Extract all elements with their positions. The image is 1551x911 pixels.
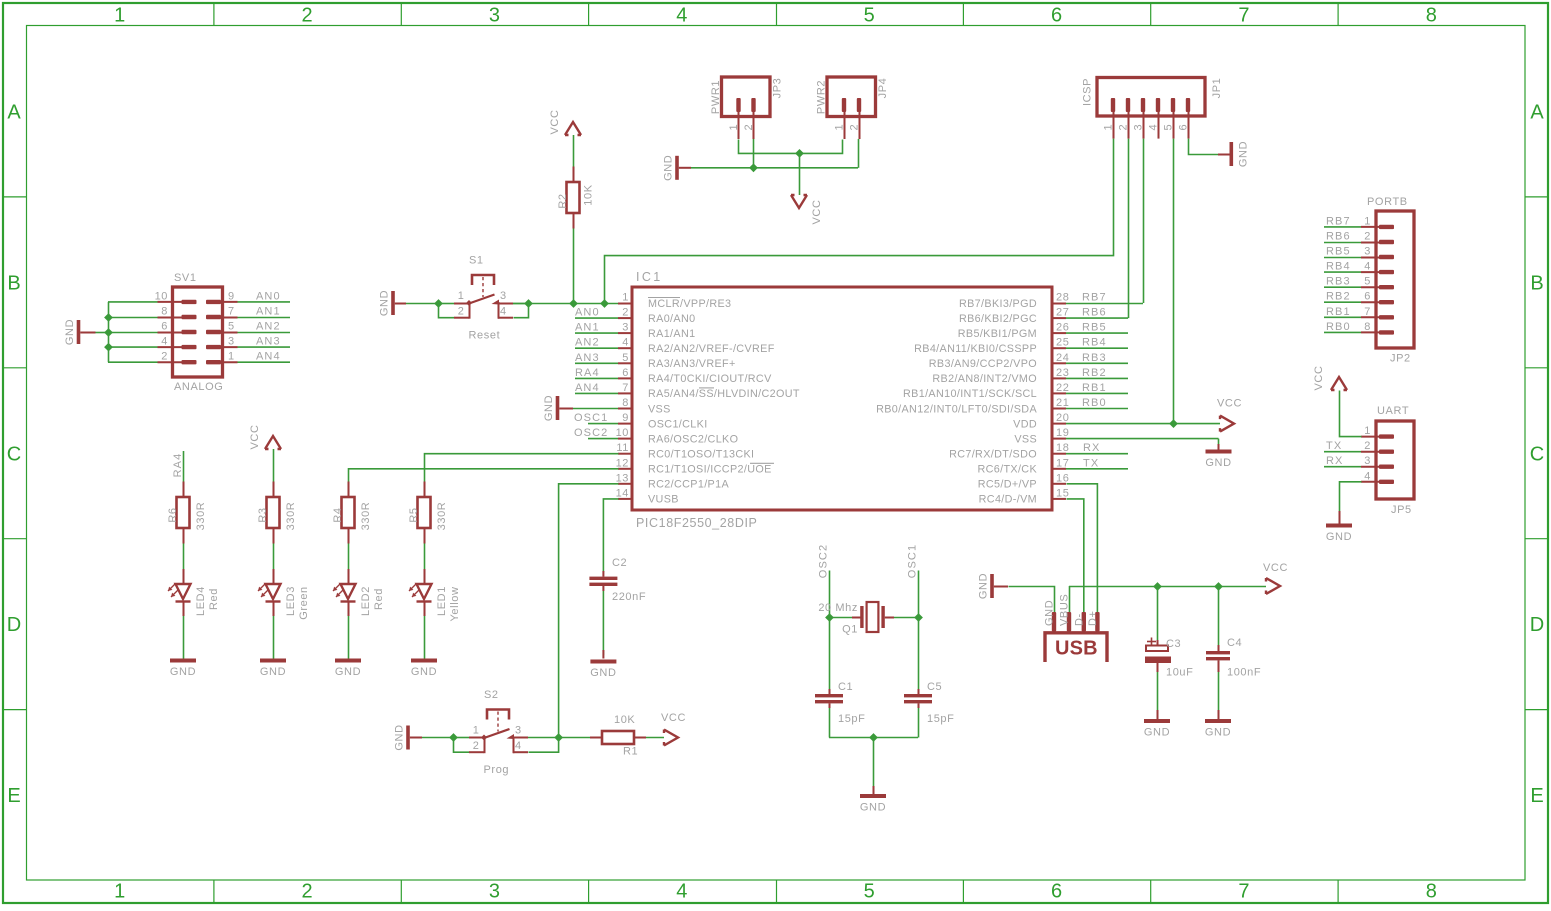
svg-text:AN2: AN2 <box>575 337 600 349</box>
net AN3 at IC1 pin 5 <box>575 352 618 364</box>
connector JP4 PWR2 <box>816 77 890 139</box>
svg-text:D: D <box>7 614 21 636</box>
svg-text:10uF: 10uF <box>1166 667 1193 679</box>
svg-text:R4: R4 <box>332 507 344 522</box>
svg-text:4: 4 <box>1364 261 1371 273</box>
junction <box>914 613 923 622</box>
net RB2 at JP2 pin 6 <box>1324 291 1361 303</box>
power VCC above R2 <box>549 109 581 135</box>
power VCC at R1 <box>661 712 686 746</box>
wire ICSP pin 5 to VDD <box>1173 139 1175 424</box>
net AN0 at IC1 pin 2 <box>575 307 618 319</box>
svg-text:2: 2 <box>473 740 480 752</box>
svg-text:B: B <box>1530 272 1543 294</box>
ground GND at S1 <box>379 290 395 316</box>
svg-text:4: 4 <box>622 337 629 349</box>
svg-text:1: 1 <box>1364 425 1371 437</box>
svg-text:GND: GND <box>170 666 196 678</box>
svg-text:RC0/T1OSO/T13CKI: RC0/T1OSO/T13CKI <box>648 449 754 461</box>
svg-text:VSS: VSS <box>1014 433 1037 445</box>
wire C1 C5 to GND rail <box>829 708 919 794</box>
junction <box>524 299 533 308</box>
svg-text:RB5: RB5 <box>1082 322 1107 334</box>
svg-text:2: 2 <box>1364 440 1371 452</box>
svg-text:28: 28 <box>1056 292 1069 304</box>
svg-text:6: 6 <box>622 367 629 379</box>
svg-text:6: 6 <box>1051 881 1062 903</box>
svg-text:5: 5 <box>864 5 875 27</box>
net TX at IC1 pin 17 <box>1066 457 1128 469</box>
svg-text:20 Mhz: 20 Mhz <box>818 602 858 614</box>
svg-text:17: 17 <box>1056 457 1069 469</box>
svg-text:E: E <box>7 785 20 807</box>
svg-text:RX: RX <box>1326 455 1343 467</box>
svg-text:TX: TX <box>1326 440 1342 452</box>
ground GND at ICSP <box>1230 141 1250 167</box>
svg-text:3: 3 <box>622 322 629 334</box>
svg-text:4: 4 <box>676 5 687 27</box>
svg-text:2: 2 <box>622 307 629 319</box>
junction <box>1214 582 1223 591</box>
svg-text:RA3/AN3/VREF+: RA3/AN3/VREF+ <box>648 358 736 370</box>
net AN1 at IC1 pin 3 <box>575 322 618 334</box>
svg-text:Q1: Q1 <box>842 624 858 636</box>
svg-text:4: 4 <box>676 881 687 903</box>
svg-text:6: 6 <box>1051 5 1062 27</box>
svg-text:GND: GND <box>978 573 990 599</box>
svg-text:1: 1 <box>473 725 480 737</box>
svg-text:RB7: RB7 <box>1326 215 1351 227</box>
svg-text:AN4: AN4 <box>256 351 281 363</box>
wire IC1 pin 14 VUSB to C2 <box>603 499 618 572</box>
wire GND to S2 <box>410 737 453 739</box>
svg-text:11: 11 <box>616 442 629 454</box>
ground GND at LED2 <box>335 659 361 679</box>
net RB2 at IC1 pin 23 <box>1066 367 1128 379</box>
wire IC1 pin 13 to S2 <box>559 484 619 738</box>
junction <box>434 299 443 308</box>
svg-text:VDD: VDD <box>1013 418 1037 430</box>
wire IC1 pin 11 to R5 <box>425 454 619 482</box>
svg-text:Prog: Prog <box>484 764 510 776</box>
connector JP2 PORTB <box>1361 196 1414 365</box>
wire LED2 to GND <box>348 616 350 659</box>
svg-text:4: 4 <box>1364 470 1371 482</box>
svg-text:25: 25 <box>1056 337 1069 349</box>
net RB7 at IC1 pin 28 <box>1066 292 1143 304</box>
svg-text:RB0: RB0 <box>1326 321 1351 333</box>
wire VCC to R3 <box>273 449 275 482</box>
wire MCLR net to IC1 pin 1 <box>513 303 618 305</box>
wire IC1 pin 16 D+ to USB <box>1067 484 1098 613</box>
net RB0 at JP2 pin 8 <box>1324 321 1361 333</box>
svg-text:R1: R1 <box>623 746 638 758</box>
resistor R3 330R <box>257 482 297 544</box>
svg-text:18: 18 <box>1056 442 1069 454</box>
wire VCC to JP5 pin 1 <box>1340 391 1362 437</box>
svg-text:AN3: AN3 <box>256 336 281 348</box>
ground GND at IC1 pin 19 <box>1205 450 1231 470</box>
svg-text:IC1: IC1 <box>636 270 663 284</box>
connector SV1 ANALOG <box>155 272 235 393</box>
svg-text:VCC: VCC <box>1263 562 1288 574</box>
svg-text:7: 7 <box>1238 881 1249 903</box>
svg-text:C2: C2 <box>612 557 627 569</box>
wire IC1 pin 8 VSS to GND <box>559 408 618 410</box>
ground GND at C2 <box>590 660 616 680</box>
svg-text:GND: GND <box>1044 600 1056 626</box>
svg-text:4: 4 <box>515 740 522 752</box>
svg-text:14: 14 <box>616 487 629 499</box>
svg-text:1: 1 <box>458 290 465 302</box>
svg-text:AN0: AN0 <box>575 307 600 319</box>
capacitor C2 220nF <box>589 557 646 603</box>
wire R3 to LED3 <box>273 544 275 570</box>
capacitor C1 15pF <box>815 681 865 725</box>
svg-text:GND: GND <box>1144 727 1170 739</box>
wire R6 to LED4 <box>183 544 185 570</box>
wire PWR1/PWR2 pin1 to VCC <box>739 140 843 154</box>
svg-text:RB7: RB7 <box>1082 292 1107 304</box>
resistor R4 330R <box>332 482 372 544</box>
wire R2 to MCLR net <box>573 229 575 304</box>
capacitor C3 10uF polarized <box>1145 586 1193 679</box>
svg-text:13: 13 <box>616 472 629 484</box>
svg-text:8: 8 <box>1426 881 1437 903</box>
wire R4 to LED2 <box>348 544 350 570</box>
svg-text:330R: 330R <box>360 502 372 531</box>
svg-text:2: 2 <box>1364 231 1371 243</box>
svg-text:JP3: JP3 <box>772 78 784 99</box>
svg-text:TX: TX <box>1083 457 1099 469</box>
svg-text:4: 4 <box>161 336 168 348</box>
junction <box>795 149 804 158</box>
svg-text:SV1: SV1 <box>174 272 197 284</box>
svg-text:VUSB: VUSB <box>648 494 679 506</box>
wire IC1 pin 15 D- to USB <box>1067 499 1084 613</box>
svg-text:RA4: RA4 <box>172 453 184 478</box>
svg-text:MCLR/VPP/RE3: MCLR/VPP/RE3 <box>648 298 731 310</box>
svg-text:OSC2: OSC2 <box>818 544 830 578</box>
svg-text:4: 4 <box>500 306 507 318</box>
svg-text:RB6: RB6 <box>1082 307 1107 319</box>
switch S2 Prog <box>453 689 559 776</box>
svg-text:15pF: 15pF <box>927 713 954 725</box>
wire crystal to C1 <box>829 617 831 694</box>
svg-text:VSS: VSS <box>648 403 671 415</box>
net RB6 at IC1 pin 27 <box>1066 307 1128 319</box>
svg-text:3: 3 <box>1364 246 1371 258</box>
svg-text:Red: Red <box>208 588 220 610</box>
svg-text:AN1: AN1 <box>256 306 281 318</box>
svg-text:9: 9 <box>228 290 235 302</box>
LED LED3 Green <box>258 569 310 620</box>
svg-text:8: 8 <box>161 306 168 318</box>
junction <box>449 733 458 742</box>
svg-text:5: 5 <box>622 352 629 364</box>
svg-text:20: 20 <box>1056 412 1069 424</box>
svg-text:6: 6 <box>161 321 168 333</box>
power VCC below PWR jumpers <box>791 195 823 225</box>
junction <box>1153 582 1162 591</box>
svg-text:RA4: RA4 <box>575 367 600 379</box>
net RX at IC1 pin 18 <box>1066 442 1128 454</box>
junction <box>104 313 113 322</box>
wire C4 to GND <box>1218 672 1220 719</box>
wire VDD to VCC <box>1066 423 1220 425</box>
svg-text:LED4: LED4 <box>195 586 207 616</box>
svg-text:RB2: RB2 <box>1326 291 1351 303</box>
net RB7 at JP2 pin 1 <box>1324 215 1361 227</box>
switch S1 Reset <box>438 255 529 342</box>
wire IC1 pin 12 to R4 <box>349 469 619 482</box>
svg-text:VCC: VCC <box>549 109 561 134</box>
svg-text:C5: C5 <box>927 681 942 693</box>
svg-text:GND: GND <box>543 395 555 421</box>
svg-text:VCC: VCC <box>661 712 686 724</box>
svg-text:AN3: AN3 <box>575 352 600 364</box>
svg-text:22: 22 <box>1056 382 1069 394</box>
svg-text:RC2/CCP1/P1A: RC2/CCP1/P1A <box>648 479 729 491</box>
connector JP3 PWR1 <box>710 77 784 139</box>
svg-text:RB2/AN8/INT2/VMO: RB2/AN8/INT2/VMO <box>932 373 1037 385</box>
capacitor C4 100nF <box>1206 586 1261 679</box>
svg-text:VCC: VCC <box>1313 365 1325 390</box>
svg-text:C: C <box>7 443 21 465</box>
svg-text:RX: RX <box>1083 442 1100 454</box>
svg-text:RB6: RB6 <box>1326 231 1351 243</box>
svg-text:3: 3 <box>489 5 500 27</box>
svg-text:Green: Green <box>298 586 310 620</box>
net RB3 at IC1 pin 24 <box>1066 352 1128 364</box>
net AN3 at SV1 <box>220 336 290 348</box>
svg-text:RA2/AN2/VREF-/CVREF: RA2/AN2/VREF-/CVREF <box>648 343 775 355</box>
svg-text:D+: D+ <box>1087 610 1099 626</box>
LED LED2 Red <box>333 569 385 616</box>
net RB3 at JP2 pin 5 <box>1324 276 1361 288</box>
resistor R2 10K <box>557 167 595 229</box>
svg-text:OSC1/CLKI: OSC1/CLKI <box>648 418 708 430</box>
svg-text:RC4/D-/VM: RC4/D-/VM <box>979 494 1037 506</box>
svg-text:C4: C4 <box>1227 637 1242 649</box>
svg-text:15: 15 <box>1056 487 1069 499</box>
svg-text:220nF: 220nF <box>612 591 646 603</box>
wire MCLR to ICSP pin 1 <box>605 139 1114 304</box>
junction <box>600 299 609 308</box>
wire GND to S1 <box>395 303 438 305</box>
junction <box>825 613 834 622</box>
svg-text:GND: GND <box>335 666 361 678</box>
svg-text:RA1/AN1: RA1/AN1 <box>648 328 695 340</box>
svg-text:RB5: RB5 <box>1326 246 1351 258</box>
svg-text:7: 7 <box>1364 306 1371 318</box>
wire R1 to VCC <box>646 737 664 739</box>
svg-text:3: 3 <box>228 336 235 348</box>
svg-text:RB4: RB4 <box>1326 261 1351 273</box>
junction <box>869 733 878 742</box>
svg-text:10: 10 <box>616 427 629 439</box>
ground GND at C4 <box>1205 719 1231 739</box>
svg-text:GND: GND <box>260 666 286 678</box>
svg-text:9: 9 <box>622 412 629 424</box>
svg-text:23: 23 <box>1056 367 1069 379</box>
net AN4 at IC1 pin 7 <box>575 382 618 394</box>
net TX at JP5 pin 2 <box>1324 440 1361 452</box>
capacitor C5 15pF <box>904 681 954 725</box>
svg-text:AN1: AN1 <box>575 322 600 334</box>
wire RB6 to ICSP pin 2 <box>1128 139 1130 319</box>
net RB4 at JP2 pin 4 <box>1324 261 1361 273</box>
svg-text:RB7/BKI3/PGD: RB7/BKI3/PGD <box>959 298 1037 310</box>
resistor R1 10K <box>590 714 646 758</box>
svg-text:RB1/AN10/INT1/SCK/SCL: RB1/AN10/INT1/SCK/SCL <box>903 388 1037 400</box>
svg-text:S2: S2 <box>484 689 499 701</box>
svg-text:USB: USB <box>1055 638 1098 660</box>
power VCC above R3 <box>249 424 281 449</box>
junction <box>104 343 113 352</box>
svg-text:JP5: JP5 <box>1391 504 1412 516</box>
svg-text:LED1: LED1 <box>436 586 448 616</box>
LED LED4 Red <box>168 569 220 616</box>
net RB5 at IC1 pin 26 <box>1066 322 1128 334</box>
junction <box>554 733 563 742</box>
svg-text:5: 5 <box>864 881 875 903</box>
svg-text:27: 27 <box>1056 307 1069 319</box>
svg-text:24: 24 <box>1056 352 1069 364</box>
svg-text:LED3: LED3 <box>285 586 297 616</box>
ground GND at S2 <box>394 724 410 750</box>
svg-text:8: 8 <box>1426 5 1437 27</box>
svg-text:3: 3 <box>515 725 522 737</box>
svg-text:C1: C1 <box>838 681 853 693</box>
wire GND to SV1 pins <box>80 302 183 362</box>
net RB5 at JP2 pin 3 <box>1324 246 1361 258</box>
net OSC2 at crystal <box>818 544 830 617</box>
svg-text:3: 3 <box>500 290 507 302</box>
ground GND at C3 <box>1144 719 1170 739</box>
wire R5 to LED1 <box>424 544 426 570</box>
wire S2 to R1 <box>559 737 590 739</box>
svg-text:26: 26 <box>1056 322 1069 334</box>
svg-text:RB6/KBI2/PGC: RB6/KBI2/PGC <box>959 313 1037 325</box>
svg-text:D: D <box>1530 614 1544 636</box>
wire C3 to GND <box>1157 672 1159 719</box>
wire LED4 to GND <box>183 616 185 659</box>
net RB1 at JP2 pin 7 <box>1324 306 1361 318</box>
net AN2 at SV1 <box>220 321 290 333</box>
wire LED3 to GND <box>273 616 275 659</box>
net RB6 at JP2 pin 2 <box>1324 231 1361 243</box>
net RB4 at IC1 pin 25 <box>1066 337 1128 349</box>
svg-text:RB1: RB1 <box>1326 306 1351 318</box>
svg-text:RB5/KBI1/PGM: RB5/KBI1/PGM <box>958 328 1037 340</box>
svg-text:RC6/TX/CK: RC6/TX/CK <box>977 464 1037 476</box>
ground GND at LED4 <box>170 659 196 679</box>
svg-text:21: 21 <box>1056 397 1069 409</box>
svg-text:RC5/D+/VP: RC5/D+/VP <box>978 479 1037 491</box>
svg-text:RB3: RB3 <box>1082 352 1107 364</box>
svg-text:GND: GND <box>1326 531 1352 543</box>
svg-text:2: 2 <box>302 5 313 27</box>
connector JP5 UART <box>1361 405 1414 516</box>
svg-text:AN0: AN0 <box>256 290 281 302</box>
svg-text:RB0: RB0 <box>1082 397 1107 409</box>
svg-text:A: A <box>1530 102 1544 124</box>
svg-text:2: 2 <box>302 881 313 903</box>
svg-text:2: 2 <box>458 306 465 318</box>
net AN2 at IC1 pin 4 <box>575 337 618 349</box>
svg-text:GND: GND <box>379 290 391 316</box>
svg-text:R6: R6 <box>167 507 179 522</box>
svg-text:PORTB: PORTB <box>1367 196 1408 208</box>
junction <box>569 299 578 308</box>
svg-text:3: 3 <box>489 881 500 903</box>
svg-text:GND: GND <box>590 667 616 679</box>
ground GND at SV1 <box>64 319 80 345</box>
svg-text:10K: 10K <box>583 184 595 205</box>
svg-text:10K: 10K <box>614 714 635 726</box>
svg-text:15pF: 15pF <box>838 713 865 725</box>
IC IC1 PIC18F2550_28DIP <box>616 270 1070 530</box>
svg-text:GND: GND <box>64 319 76 345</box>
LED LED1 Yellow <box>409 569 461 622</box>
svg-text:5: 5 <box>1364 276 1371 288</box>
net RB0 at IC1 pin 21 <box>1066 397 1128 409</box>
svg-text:1: 1 <box>622 292 629 304</box>
svg-text:RB3/AN9/CCP2/VPO: RB3/AN9/CCP2/VPO <box>929 358 1037 370</box>
svg-text:10: 10 <box>155 290 168 302</box>
svg-text:RC1/T1OSI/ICCP2/UOE: RC1/T1OSI/ICCP2/UOE <box>648 464 772 476</box>
net RA4 to R6 <box>172 451 184 482</box>
svg-text:A: A <box>7 102 21 124</box>
wire GND rail to PWR pin2 <box>679 139 859 168</box>
svg-text:VCC: VCC <box>811 199 823 224</box>
svg-text:LED2: LED2 <box>360 586 372 616</box>
svg-text:1: 1 <box>114 5 125 27</box>
svg-text:PWR2: PWR2 <box>816 80 828 114</box>
net RB1 at IC1 pin 22 <box>1066 382 1128 394</box>
svg-text:C3: C3 <box>1166 638 1181 650</box>
power VCC at USB rail <box>1263 562 1288 594</box>
net AN4 at SV1 <box>220 351 290 363</box>
svg-text:JP2: JP2 <box>1390 353 1411 365</box>
ground GND at IC1 pin 8 <box>543 395 559 421</box>
svg-text:1: 1 <box>228 351 235 363</box>
net RA4 at IC1 pin 6 <box>575 367 618 379</box>
net AN0 at SV1 <box>220 290 290 302</box>
svg-text:Reset: Reset <box>469 330 501 342</box>
resistor R6 330R <box>167 482 207 544</box>
svg-text:GND: GND <box>663 155 675 181</box>
wire VSS pin 19 to GND <box>1066 439 1219 450</box>
ground GND at LED1 <box>411 659 437 679</box>
svg-text:D-: D- <box>1073 613 1085 626</box>
wire C2 to GND <box>602 591 604 659</box>
svg-text:12: 12 <box>616 457 629 469</box>
svg-text:JP4: JP4 <box>877 78 889 99</box>
junction <box>749 163 758 172</box>
svg-text:S1: S1 <box>469 255 484 267</box>
net OSC1 at crystal <box>907 544 919 617</box>
svg-text:B: B <box>7 272 20 294</box>
ground GND at crystal <box>860 794 886 814</box>
svg-text:OSC1: OSC1 <box>907 544 919 578</box>
wire ICSP pin 6 to GND <box>1189 139 1230 155</box>
svg-text:OSC2: OSC2 <box>574 427 608 439</box>
svg-text:RA0/AN0: RA0/AN0 <box>648 313 695 325</box>
svg-text:RB3: RB3 <box>1326 276 1351 288</box>
svg-text:VCC: VCC <box>1217 398 1242 410</box>
